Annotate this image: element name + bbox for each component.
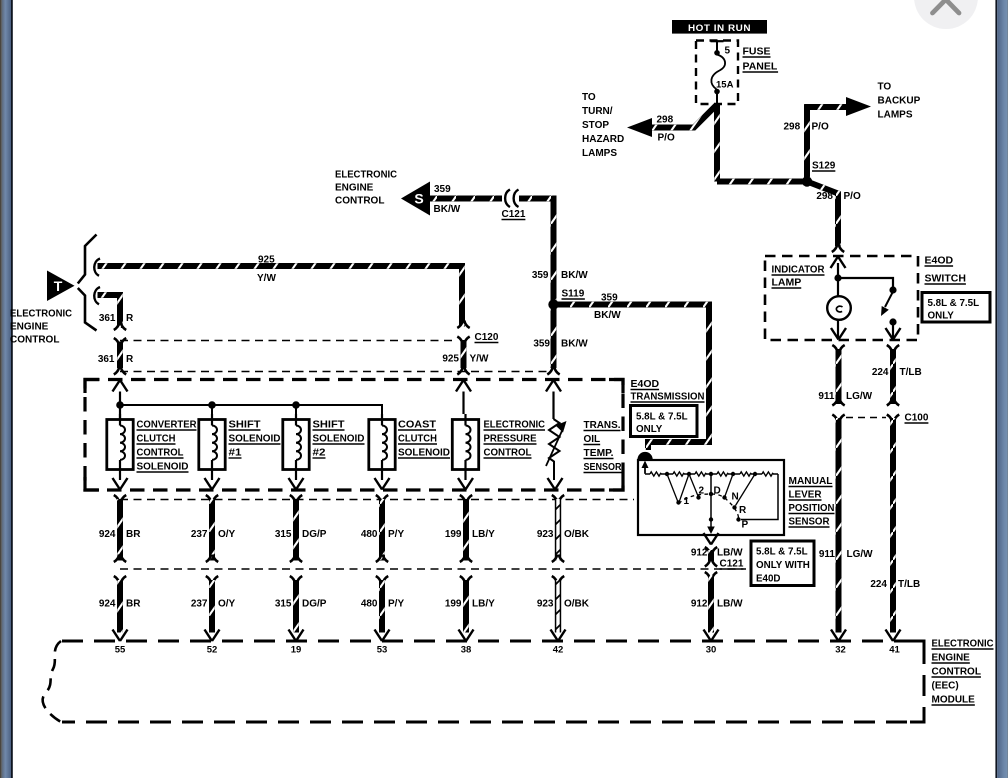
label E4OD SWITCH	[925, 255, 966, 285]
svg-text:CONTROL: CONTROL	[335, 196, 384, 207]
svg-text:ENGINE: ENGINE	[932, 653, 971, 664]
note box 5.8L & 7.5L ONLY (transmission)	[631, 406, 698, 437]
svg-text:O/BK: O/BK	[564, 529, 590, 540]
svg-text:BACKUP: BACKUP	[878, 96, 921, 107]
svg-text:911: 911	[818, 391, 835, 402]
MLPS wiper and contacts	[667, 474, 778, 534]
svg-text:BK/W: BK/W	[561, 339, 588, 350]
svg-text:TRANS.: TRANS.	[584, 420, 621, 431]
svg-text:C121: C121	[720, 559, 744, 570]
svg-text:42: 42	[553, 645, 564, 656]
left page edge bar	[0, 0, 13, 778]
wire 359 BK/W down into transmission	[532, 270, 588, 375]
svg-text:1: 1	[684, 496, 690, 507]
svg-text:OIL: OIL	[584, 434, 601, 445]
svg-text:CONTROL: CONTROL	[137, 448, 184, 459]
note box 5.8L & 7.5L ONLY	[922, 293, 990, 323]
svg-text:P: P	[742, 520, 749, 531]
svg-text:2: 2	[699, 486, 705, 497]
svg-text:LAMPS: LAMPS	[878, 110, 913, 121]
svg-text:T: T	[54, 278, 63, 294]
svg-text:CONTROL: CONTROL	[484, 448, 532, 459]
splice S129	[802, 161, 836, 187]
svg-text:5: 5	[725, 46, 731, 57]
svg-text:912: 912	[691, 599, 708, 610]
scroll-to-top button	[914, 0, 978, 29]
label ELECTRONIC ENGINE CONTROL (S)	[335, 170, 397, 207]
solenoid supply bus	[116, 401, 382, 419]
svg-text:ELECTRONIC: ELECTRONIC	[335, 170, 397, 181]
svg-text:ONLY WITH: ONLY WITH	[756, 560, 810, 571]
indicator box exit arrows	[831, 328, 901, 340]
svg-text:924: 924	[99, 599, 116, 610]
svg-text:199: 199	[445, 529, 462, 540]
power tag HOT IN RUN	[672, 20, 767, 34]
svg-text:INDICATOR: INDICATOR	[772, 264, 825, 276]
svg-text:SENSOR: SENSOR	[584, 462, 623, 473]
svg-text:LB/Y: LB/Y	[472, 599, 495, 610]
svg-text:SWITCH: SWITCH	[925, 273, 966, 285]
transmission exit arrows	[113, 478, 563, 490]
EEC module box	[43, 641, 924, 722]
transmission case connector line (lower)	[120, 499, 634, 501]
wire 924 BR to EEC pin 55	[99, 495, 141, 641]
transmission entry arrows	[113, 380, 562, 392]
svg-text:CONTROL: CONTROL	[10, 335, 59, 346]
wire 480 P/Y to EEC pin 53	[361, 495, 405, 641]
coast clutch solenoid	[369, 414, 450, 480]
MLPS feed connector dome	[638, 452, 653, 473]
svg-text:480: 480	[361, 599, 378, 610]
wire 315 DG/P to EEC pin 19	[275, 495, 327, 641]
svg-text:LB/W: LB/W	[717, 548, 743, 559]
E4OD transmission box	[85, 380, 623, 491]
svg-text:ENGINE: ENGINE	[10, 322, 49, 333]
svg-text:925: 925	[258, 255, 275, 266]
svg-text:ELECTRONIC: ELECTRONIC	[932, 639, 994, 650]
svg-text:SOLENOID: SOLENOID	[398, 448, 450, 459]
svg-text:30: 30	[706, 645, 717, 656]
svg-text:912: 912	[691, 548, 708, 559]
svg-text:T/LB: T/LB	[898, 579, 920, 590]
node: lamp/switch junction	[834, 274, 893, 287]
svg-text:SENSOR: SENSOR	[789, 516, 830, 528]
svg-text:911: 911	[819, 549, 836, 560]
svg-text:315: 315	[275, 529, 292, 540]
svg-text:D: D	[714, 486, 721, 497]
fuse panel (dashed box)	[696, 41, 778, 105]
label MANUAL LEVER POSITION SENSOR	[789, 475, 835, 528]
wire 298 P/O down to indicator lamp	[807, 182, 861, 253]
svg-text:SOLENOID: SOLENOID	[229, 434, 281, 445]
svg-text:E4OD: E4OD	[631, 378, 660, 390]
svg-text:ELECTRONIC: ELECTRONIC	[484, 420, 546, 431]
indicator lamp bulb	[827, 296, 851, 339]
wires inside transmission (top)	[120, 392, 554, 420]
wire 925 Y/W horizontal	[98, 255, 470, 329]
svg-text:S119: S119	[562, 289, 585, 300]
label ELECTRONIC ENGINE CONTROL (T)	[10, 309, 72, 346]
svg-text:P/O: P/O	[812, 122, 829, 133]
svg-text:53: 53	[377, 645, 388, 656]
svg-text:38: 38	[461, 645, 472, 656]
svg-text:361: 361	[98, 354, 115, 365]
connector line C121 level	[120, 568, 746, 570]
svg-text:298: 298	[816, 191, 833, 202]
svg-text:SHIFT: SHIFT	[313, 420, 345, 431]
svg-text:CLUTCH: CLUTCH	[398, 434, 437, 445]
svg-text:55: 55	[115, 645, 126, 656]
svg-text:19: 19	[291, 645, 302, 656]
svg-text:O/BK: O/BK	[564, 599, 590, 610]
connector C121 (lower)	[720, 559, 744, 570]
wire 361 R to transmission	[98, 338, 134, 375]
svg-text:224: 224	[872, 367, 889, 378]
svg-text:N: N	[732, 492, 739, 503]
label E4OD TRANSMISSION	[631, 378, 705, 403]
svg-text:224: 224	[870, 579, 887, 590]
svg-text:O/Y: O/Y	[218, 599, 236, 610]
svg-text:5.8L & 7.5L: 5.8L & 7.5L	[636, 412, 688, 423]
wire 359 BK/W from S arrow	[430, 184, 502, 215]
svg-text:SOLENOID: SOLENOID	[313, 434, 365, 445]
svg-text:CONTROL: CONTROL	[932, 667, 981, 678]
svg-text:TURN/: TURN/	[582, 106, 613, 117]
svg-text:CONVERTER: CONVERTER	[137, 420, 198, 431]
EEC pin numbers	[115, 645, 901, 656]
svg-text:15A: 15A	[716, 80, 734, 91]
svg-text:R: R	[126, 354, 134, 365]
svg-text:52: 52	[207, 645, 218, 656]
wire 224 T/LB (switch to EEC pin 41)	[870, 345, 921, 641]
note box 5.8L & 7.5L ONLY WITH E4OD	[751, 541, 814, 586]
svg-text:O/Y: O/Y	[218, 529, 236, 540]
shift solenoid #2	[283, 414, 365, 480]
connector C100	[846, 413, 929, 424]
svg-text:LAMP: LAMP	[772, 277, 802, 289]
wire 298 P/O up to backup lamps	[784, 97, 872, 182]
wire 298 P/O to splice S129	[717, 179, 807, 185]
wire 361 R from T connector	[98, 295, 135, 330]
svg-text:LB/W: LB/W	[717, 599, 743, 610]
wire 199 LB/Y to EEC pin 38	[445, 495, 495, 641]
wire 298 P/O branch to turn/stop hazard lamps	[627, 106, 716, 144]
wire entering indicator box	[831, 257, 846, 297]
splice S119	[548, 289, 585, 310]
svg-text:SHIFT: SHIFT	[229, 420, 261, 431]
svg-text:LG/W: LG/W	[847, 549, 874, 560]
svg-text:MODULE: MODULE	[932, 695, 976, 706]
svg-text:E40D: E40D	[756, 574, 781, 585]
svg-text:C100: C100	[905, 413, 929, 424]
manual lever position sensor box	[638, 460, 784, 535]
svg-text:T/LB: T/LB	[900, 367, 922, 378]
svg-text:HAZARD: HAZARD	[582, 134, 624, 145]
svg-text:E4OD: E4OD	[925, 255, 954, 267]
svg-text:359: 359	[533, 339, 550, 350]
svg-text:DG/P: DG/P	[302, 599, 327, 610]
electronic pressure control solenoid	[452, 414, 545, 480]
trans oil temp sensor (thermistor)	[546, 419, 567, 480]
fuse 15A, terminal 5	[711, 41, 734, 104]
svg-text:BK/W: BK/W	[434, 204, 461, 215]
E4OD switch contacts	[881, 286, 897, 339]
wire 359 BK/W branch to MLPS	[554, 293, 710, 451]
svg-text:ELECTRONIC: ELECTRONIC	[10, 309, 72, 320]
svg-text:TO: TO	[878, 82, 892, 93]
svg-text:HOT IN RUN: HOT IN RUN	[688, 23, 751, 34]
svg-text:R: R	[739, 505, 747, 516]
svg-text:Y/W: Y/W	[470, 354, 489, 365]
svg-text:LB/Y: LB/Y	[472, 529, 495, 540]
svg-text:LAMPS: LAMPS	[582, 148, 617, 159]
wire 912 LB/W (MLPS to EEC pin 30)	[691, 533, 743, 641]
svg-text:TRANSMISSION: TRANSMISSION	[631, 391, 705, 403]
connector bracket	[78, 235, 100, 331]
svg-text:P/O: P/O	[658, 133, 675, 144]
svg-text:924: 924	[99, 529, 116, 540]
svg-text:P/Y: P/Y	[388, 529, 404, 540]
svg-text:199: 199	[445, 599, 462, 610]
svg-text:FUSE: FUSE	[743, 46, 771, 58]
svg-text:P/O: P/O	[844, 191, 861, 202]
MLPS resistor chain	[645, 466, 778, 476]
svg-text:237: 237	[191, 599, 208, 610]
svg-text:41: 41	[889, 645, 900, 656]
svg-text:ONLY: ONLY	[636, 424, 663, 435]
svg-text:Y/W: Y/W	[257, 273, 276, 284]
indicator lamp / E4OD switch box	[765, 256, 918, 340]
svg-text:DG/P: DG/P	[302, 529, 327, 540]
svg-text:PRESSURE: PRESSURE	[484, 434, 537, 445]
wire 911 LG/W (lamp to EEC pin 32)	[818, 345, 873, 641]
svg-text:POSITION: POSITION	[789, 502, 835, 514]
svg-text:32: 32	[835, 645, 846, 656]
label TRANS OIL TEMP SENSOR	[584, 420, 623, 473]
EEC reference arrow S	[401, 182, 430, 216]
connector C120	[457, 332, 499, 344]
svg-text:MANUAL: MANUAL	[789, 475, 834, 487]
svg-text:TEMP.: TEMP.	[584, 448, 614, 459]
svg-text:C120: C120	[475, 332, 499, 343]
svg-text:BR: BR	[126, 529, 141, 540]
svg-text:TO: TO	[582, 92, 596, 103]
wire 237 O/Y to EEC pin 52	[191, 495, 236, 641]
svg-text:P/Y: P/Y	[388, 599, 404, 610]
svg-text:CLUTCH: CLUTCH	[137, 434, 176, 445]
svg-text:S129: S129	[812, 161, 836, 172]
EEC reference arrow T	[47, 271, 75, 302]
right page edge bar	[995, 0, 1008, 778]
label TO BACKUP LAMPS	[878, 82, 921, 121]
svg-text:BK/W: BK/W	[561, 270, 588, 281]
svg-text:LEVER: LEVER	[789, 489, 822, 501]
svg-text:S: S	[414, 191, 423, 207]
svg-text:SOLENOID: SOLENOID	[137, 462, 189, 473]
svg-text:STOP: STOP	[582, 120, 609, 131]
svg-text:5.8L & 7.5L: 5.8L & 7.5L	[756, 547, 808, 558]
label ELECTRONIC ENGINE CONTROL (EEC) MODULE	[932, 639, 994, 706]
converter clutch control solenoid	[107, 414, 197, 480]
shift solenoid #1	[199, 414, 281, 480]
wire 359 BK/W to splice S119	[519, 199, 588, 350]
svg-text:359: 359	[434, 184, 451, 195]
svg-text:298: 298	[657, 115, 674, 126]
connector line C120 level	[120, 340, 455, 342]
transmission case connector line (upper)	[120, 371, 548, 373]
svg-text:359: 359	[532, 270, 549, 281]
wire 923 O/BK (TOT sensor to EEC pin 42, hollow)	[537, 495, 590, 641]
svg-text:#1: #1	[229, 448, 243, 459]
svg-text:PANEL: PANEL	[743, 61, 778, 73]
svg-text:298: 298	[784, 122, 801, 133]
svg-text:(EEC): (EEC)	[932, 681, 959, 692]
wire 925 Y/W to transmission	[442, 340, 489, 375]
svg-text:ONLY: ONLY	[928, 311, 955, 322]
svg-text:ENGINE: ENGINE	[335, 183, 374, 194]
label TO TURN/STOP HAZARD LAMPS	[582, 92, 624, 159]
svg-text:359: 359	[601, 293, 618, 304]
svg-text:R: R	[126, 313, 134, 324]
svg-text:COAST: COAST	[398, 420, 436, 431]
svg-text:C121: C121	[502, 209, 526, 220]
svg-text:480: 480	[361, 529, 378, 540]
svg-text:361: 361	[99, 313, 116, 324]
svg-text:315: 315	[275, 599, 292, 610]
svg-text:BK/W: BK/W	[594, 310, 621, 321]
svg-text:BR: BR	[126, 599, 141, 610]
svg-text:923: 923	[537, 599, 554, 610]
connector C121 (upper)	[502, 190, 526, 221]
svg-text:5.8L & 7.5L: 5.8L & 7.5L	[928, 298, 980, 309]
svg-text:923: 923	[537, 529, 554, 540]
svg-text:#2: #2	[313, 448, 327, 459]
svg-text:237: 237	[191, 529, 208, 540]
svg-text:LG/W: LG/W	[846, 391, 873, 402]
svg-text:925: 925	[442, 354, 459, 365]
wire 298 P/O trunk from fuse	[714, 104, 720, 182]
